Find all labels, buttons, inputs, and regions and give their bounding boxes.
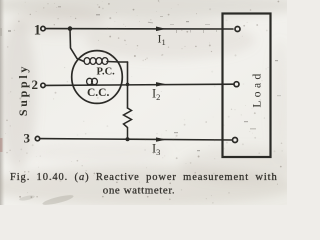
svg-text:Fig. 10.40. (a) Reactive power: Fig. 10.40. (a) Reactive power measureme… — [10, 172, 278, 183]
svg-text:3: 3 — [24, 131, 31, 146]
svg-text:one wattmeter.: one wattmeter. — [103, 185, 175, 197]
svg-text:1: 1 — [34, 22, 41, 38]
svg-text:2: 2 — [32, 77, 39, 92]
svg-text:Load: Load — [252, 70, 264, 107]
svg-text:Supply: Supply — [16, 64, 30, 116]
svg-text:P.C.: P.C. — [97, 67, 116, 78]
